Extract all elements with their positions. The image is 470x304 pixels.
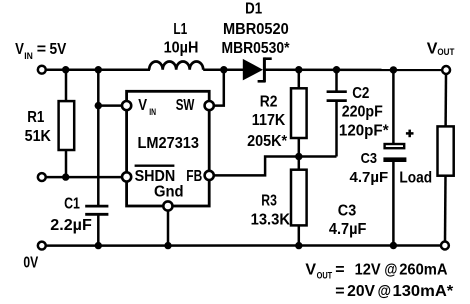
svg-text:0V: 0V bbox=[23, 255, 38, 272]
junction R1 bottom bbox=[62, 173, 69, 180]
wire R1 top lead bbox=[65, 70, 68, 102]
svg-text:12V: 12V bbox=[355, 262, 381, 279]
resistor R3 bbox=[291, 170, 307, 226]
wire R1 bottom lead bbox=[65, 150, 68, 177]
junction R2 top bbox=[295, 66, 302, 73]
terminal Vin bbox=[38, 66, 46, 74]
resistor R2 bbox=[291, 88, 307, 138]
diode D1 bbox=[243, 57, 272, 82]
svg-text:4.7µF: 4.7µF bbox=[329, 221, 367, 238]
svg-text:R2: R2 bbox=[260, 93, 278, 110]
svg-text:MBR0520: MBR0520 bbox=[223, 21, 289, 38]
capacitor C3 electrolytic bbox=[383, 144, 406, 162]
resistor Load bbox=[438, 126, 454, 175]
junction SW node bbox=[220, 66, 227, 73]
wire C3 bottom lead bbox=[392, 162, 395, 246]
wire C1 column upper bbox=[97, 70, 100, 206]
svg-text:=: = bbox=[335, 283, 344, 300]
junction C3 top bbox=[390, 66, 397, 73]
wire top rail Vin to L1 bbox=[46, 68, 150, 71]
inductor L1 bbox=[149, 62, 203, 70]
wire D1 to Vout terminal bbox=[265, 68, 442, 71]
svg-text:L1: L1 bbox=[173, 21, 187, 38]
label pin SHDN with overline bbox=[135, 166, 176, 185]
junction R1 top bbox=[62, 66, 69, 73]
IC U1 LM27313 box bbox=[127, 91, 210, 206]
svg-text:220pF: 220pF bbox=[342, 103, 383, 120]
wire C2 bottom lead bbox=[335, 101, 338, 157]
junction FB node bbox=[295, 153, 302, 160]
capacitor C1 bbox=[85, 206, 108, 214]
svg-text:C3: C3 bbox=[361, 150, 377, 167]
wire ground rail bbox=[46, 244, 441, 247]
pin FB bbox=[205, 171, 214, 180]
svg-text:130mA*: 130mA* bbox=[393, 283, 454, 300]
label Vout spec line 1 bbox=[305, 262, 448, 282]
svg-text:20V: 20V bbox=[347, 283, 375, 300]
svg-text:Gnd: Gnd bbox=[154, 183, 184, 200]
svg-text:C2: C2 bbox=[352, 85, 369, 102]
pin Gnd bbox=[163, 201, 172, 210]
label plus polarity bbox=[406, 130, 414, 138]
capacitor C2 bbox=[327, 92, 347, 101]
svg-text:V: V bbox=[138, 97, 147, 114]
svg-text:4.7µF: 4.7µF bbox=[350, 169, 389, 186]
svg-text:5V: 5V bbox=[50, 41, 67, 58]
junction Vin pin tap bbox=[95, 102, 102, 109]
svg-text:2.2µF: 2.2µF bbox=[50, 217, 92, 234]
wire C1 to ground rail bbox=[97, 214, 100, 245]
wire Vin pin lead bbox=[98, 104, 122, 107]
wire C2 top lead bbox=[335, 70, 338, 92]
svg-text:V: V bbox=[305, 262, 316, 279]
resistor R1 bbox=[59, 101, 75, 150]
svg-text:51K: 51K bbox=[25, 128, 52, 145]
svg-text:OUT: OUT bbox=[317, 270, 333, 281]
wire FB pin to divider and C2 bbox=[214, 157, 337, 176]
wire Vout to Load bbox=[444, 75, 447, 127]
svg-text:=: = bbox=[37, 41, 46, 58]
junction R3 bottom bbox=[295, 242, 302, 249]
pin SHDN bbox=[122, 172, 131, 181]
wire R2 top lead bbox=[298, 70, 301, 89]
terminal 0V right bbox=[441, 242, 449, 250]
terminal Vout bbox=[442, 66, 450, 74]
terminal SHDN input bbox=[38, 173, 46, 181]
pin SW bbox=[205, 101, 214, 110]
svg-text:IN: IN bbox=[149, 107, 156, 118]
pin Vin bbox=[122, 101, 131, 110]
junction C3 bottom bbox=[390, 242, 397, 249]
svg-text:13.3K: 13.3K bbox=[251, 211, 291, 228]
wire L1 to D1 bbox=[203, 68, 243, 71]
label Vout spec line 2 bbox=[335, 283, 454, 300]
junction C1 column top bbox=[95, 66, 102, 73]
svg-text:@: @ bbox=[378, 283, 391, 300]
wire Gnd pin lead bbox=[167, 211, 170, 246]
svg-text:260mA: 260mA bbox=[399, 262, 448, 279]
svg-text:C3: C3 bbox=[338, 202, 356, 219]
wire Load bottom lead bbox=[444, 176, 447, 242]
svg-text:FB: FB bbox=[186, 168, 202, 185]
svg-text:C1: C1 bbox=[64, 196, 80, 213]
svg-text:MBR0530*: MBR0530* bbox=[222, 40, 291, 57]
svg-text:205K*: 205K* bbox=[247, 133, 288, 150]
wire R3 bottom lead bbox=[298, 225, 301, 245]
svg-text:R1: R1 bbox=[27, 109, 44, 126]
svg-text:10µH: 10µH bbox=[164, 40, 199, 57]
label pin Vin bbox=[138, 97, 156, 118]
svg-text:OUT: OUT bbox=[437, 47, 454, 58]
svg-text:117K: 117K bbox=[252, 112, 286, 129]
svg-text:SW: SW bbox=[176, 97, 195, 114]
wire C3 top lead bbox=[392, 70, 395, 143]
label Vout bbox=[427, 41, 455, 59]
label Vin = 5V bbox=[15, 41, 66, 62]
junction C1 bottom bbox=[95, 242, 102, 249]
svg-text:D1: D1 bbox=[245, 0, 262, 17]
wire R3 top lead bbox=[298, 157, 301, 170]
svg-text:120pF*: 120pF* bbox=[339, 122, 389, 139]
wire R2 bottom lead bbox=[298, 138, 301, 157]
svg-text:@: @ bbox=[384, 262, 397, 279]
svg-text:R3: R3 bbox=[261, 192, 277, 209]
svg-text:IN: IN bbox=[24, 51, 33, 62]
svg-text:V: V bbox=[427, 41, 438, 58]
terminal 0V left bbox=[38, 242, 46, 250]
junction Gnd rail bbox=[164, 242, 171, 249]
wire SW pin to top rail bbox=[214, 70, 224, 106]
svg-text:V: V bbox=[15, 41, 24, 58]
svg-text:Load: Load bbox=[399, 170, 432, 187]
wire SHDN line bbox=[46, 176, 122, 179]
svg-text:LM27313: LM27313 bbox=[138, 135, 200, 152]
junction C2 top bbox=[333, 66, 340, 73]
svg-text:=: = bbox=[335, 262, 344, 279]
